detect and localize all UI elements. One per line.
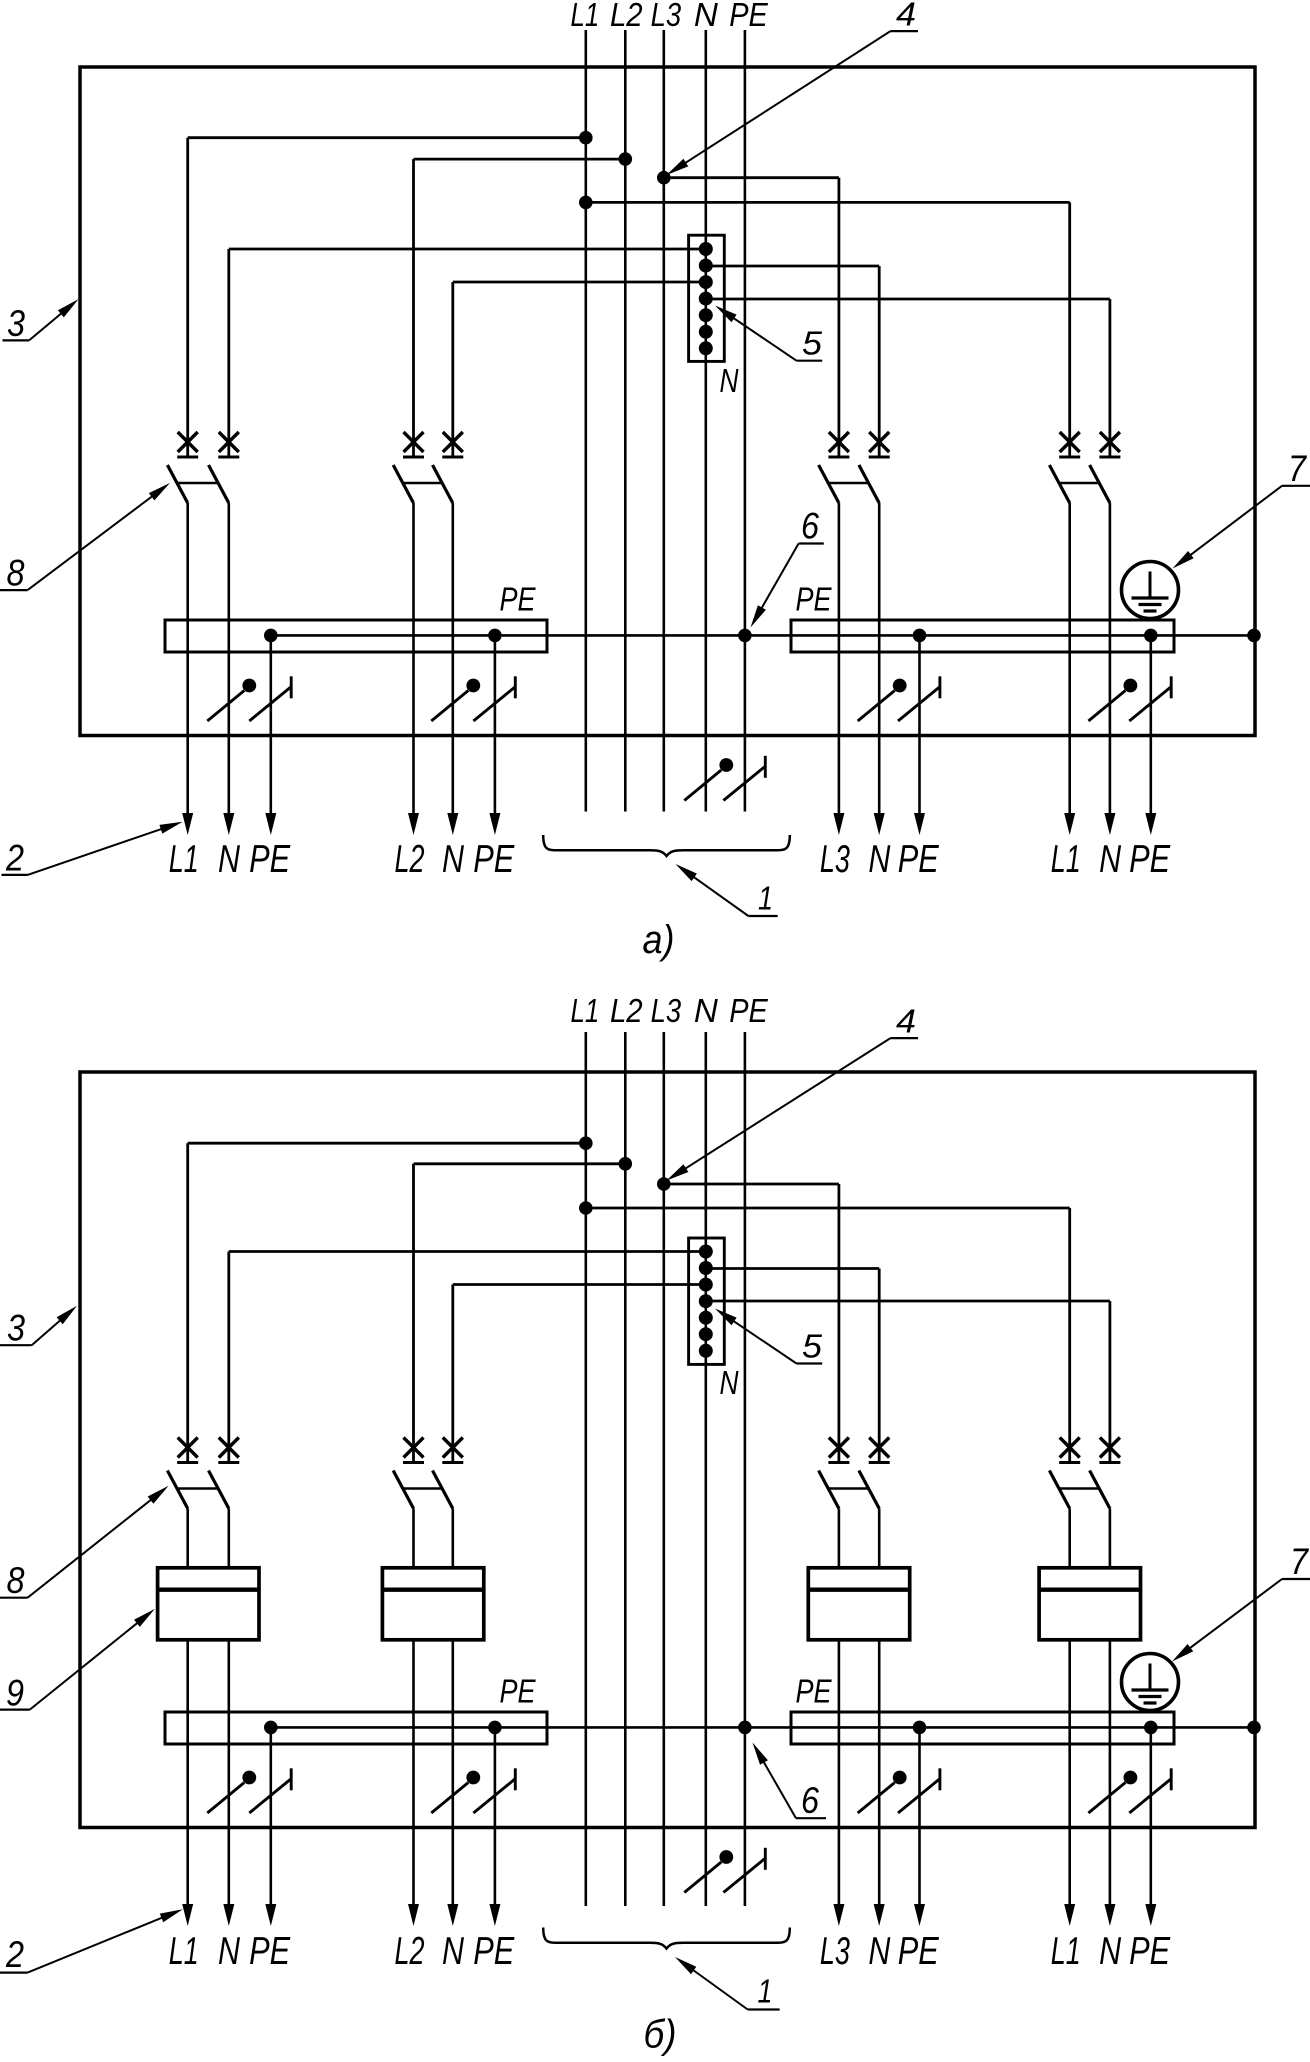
- svg-text:PE: PE: [500, 581, 537, 618]
- svg-text:N: N: [218, 838, 241, 881]
- svg-text:N: N: [1099, 838, 1122, 881]
- svg-text:8: 8: [7, 1560, 25, 1601]
- svg-text:PE: PE: [249, 1930, 291, 1973]
- svg-text:PE: PE: [796, 1673, 833, 1710]
- svg-text:N: N: [218, 1930, 241, 1973]
- svg-text:L2: L2: [610, 0, 643, 33]
- svg-text:PE: PE: [249, 838, 291, 881]
- svg-text:N: N: [868, 838, 891, 881]
- svg-text:PE: PE: [898, 1930, 940, 1973]
- svg-text:L2: L2: [395, 1930, 425, 1973]
- svg-text:6: 6: [801, 506, 819, 547]
- svg-text:L2: L2: [610, 992, 643, 1029]
- svg-text:N: N: [1099, 1930, 1122, 1973]
- svg-text:N: N: [720, 362, 739, 399]
- svg-text:L1: L1: [169, 1930, 199, 1973]
- svg-text:3: 3: [7, 303, 25, 344]
- svg-text:4: 4: [896, 1003, 916, 1040]
- svg-text:PE: PE: [898, 838, 940, 881]
- svg-text:PE: PE: [1129, 1930, 1171, 1973]
- svg-text:7: 7: [1290, 1541, 1309, 1582]
- svg-text:L2: L2: [395, 838, 425, 881]
- svg-text:a): a): [643, 918, 675, 962]
- svg-text:N: N: [442, 1930, 465, 1973]
- svg-text:PE: PE: [796, 581, 833, 618]
- svg-text:N: N: [442, 838, 465, 881]
- svg-text:6: 6: [801, 1780, 819, 1821]
- svg-text:L3: L3: [820, 838, 850, 881]
- svg-text:L3: L3: [651, 992, 682, 1029]
- svg-text:N: N: [868, 1930, 891, 1973]
- svg-text:L1: L1: [1051, 838, 1081, 881]
- svg-text:3: 3: [7, 1307, 25, 1348]
- svg-text:N: N: [694, 0, 718, 33]
- svg-text:8: 8: [7, 553, 25, 594]
- svg-text:L1: L1: [571, 992, 600, 1029]
- svg-text:L1: L1: [169, 838, 199, 881]
- svg-text:N: N: [720, 1364, 739, 1401]
- svg-text:L1: L1: [571, 0, 600, 33]
- svg-text:2: 2: [5, 838, 24, 879]
- svg-text:L3: L3: [820, 1930, 850, 1973]
- svg-text:1: 1: [758, 880, 773, 917]
- svg-text:б): б): [644, 2013, 677, 2057]
- svg-text:9: 9: [6, 1673, 24, 1714]
- svg-text:PE: PE: [729, 992, 768, 1029]
- svg-text:PE: PE: [500, 1673, 537, 1710]
- svg-text:L3: L3: [651, 0, 682, 33]
- svg-text:5: 5: [802, 1328, 823, 1365]
- svg-text:N: N: [694, 992, 718, 1029]
- svg-text:1: 1: [758, 1973, 773, 2010]
- svg-text:5: 5: [802, 325, 823, 362]
- svg-text:L1: L1: [1051, 1930, 1081, 1973]
- svg-text:7: 7: [1288, 448, 1307, 489]
- svg-text:PE: PE: [473, 1930, 515, 1973]
- svg-text:PE: PE: [473, 838, 515, 881]
- svg-text:2: 2: [5, 1934, 24, 1975]
- svg-text:PE: PE: [729, 0, 768, 33]
- svg-text:PE: PE: [1129, 838, 1171, 881]
- svg-text:4: 4: [896, 0, 916, 33]
